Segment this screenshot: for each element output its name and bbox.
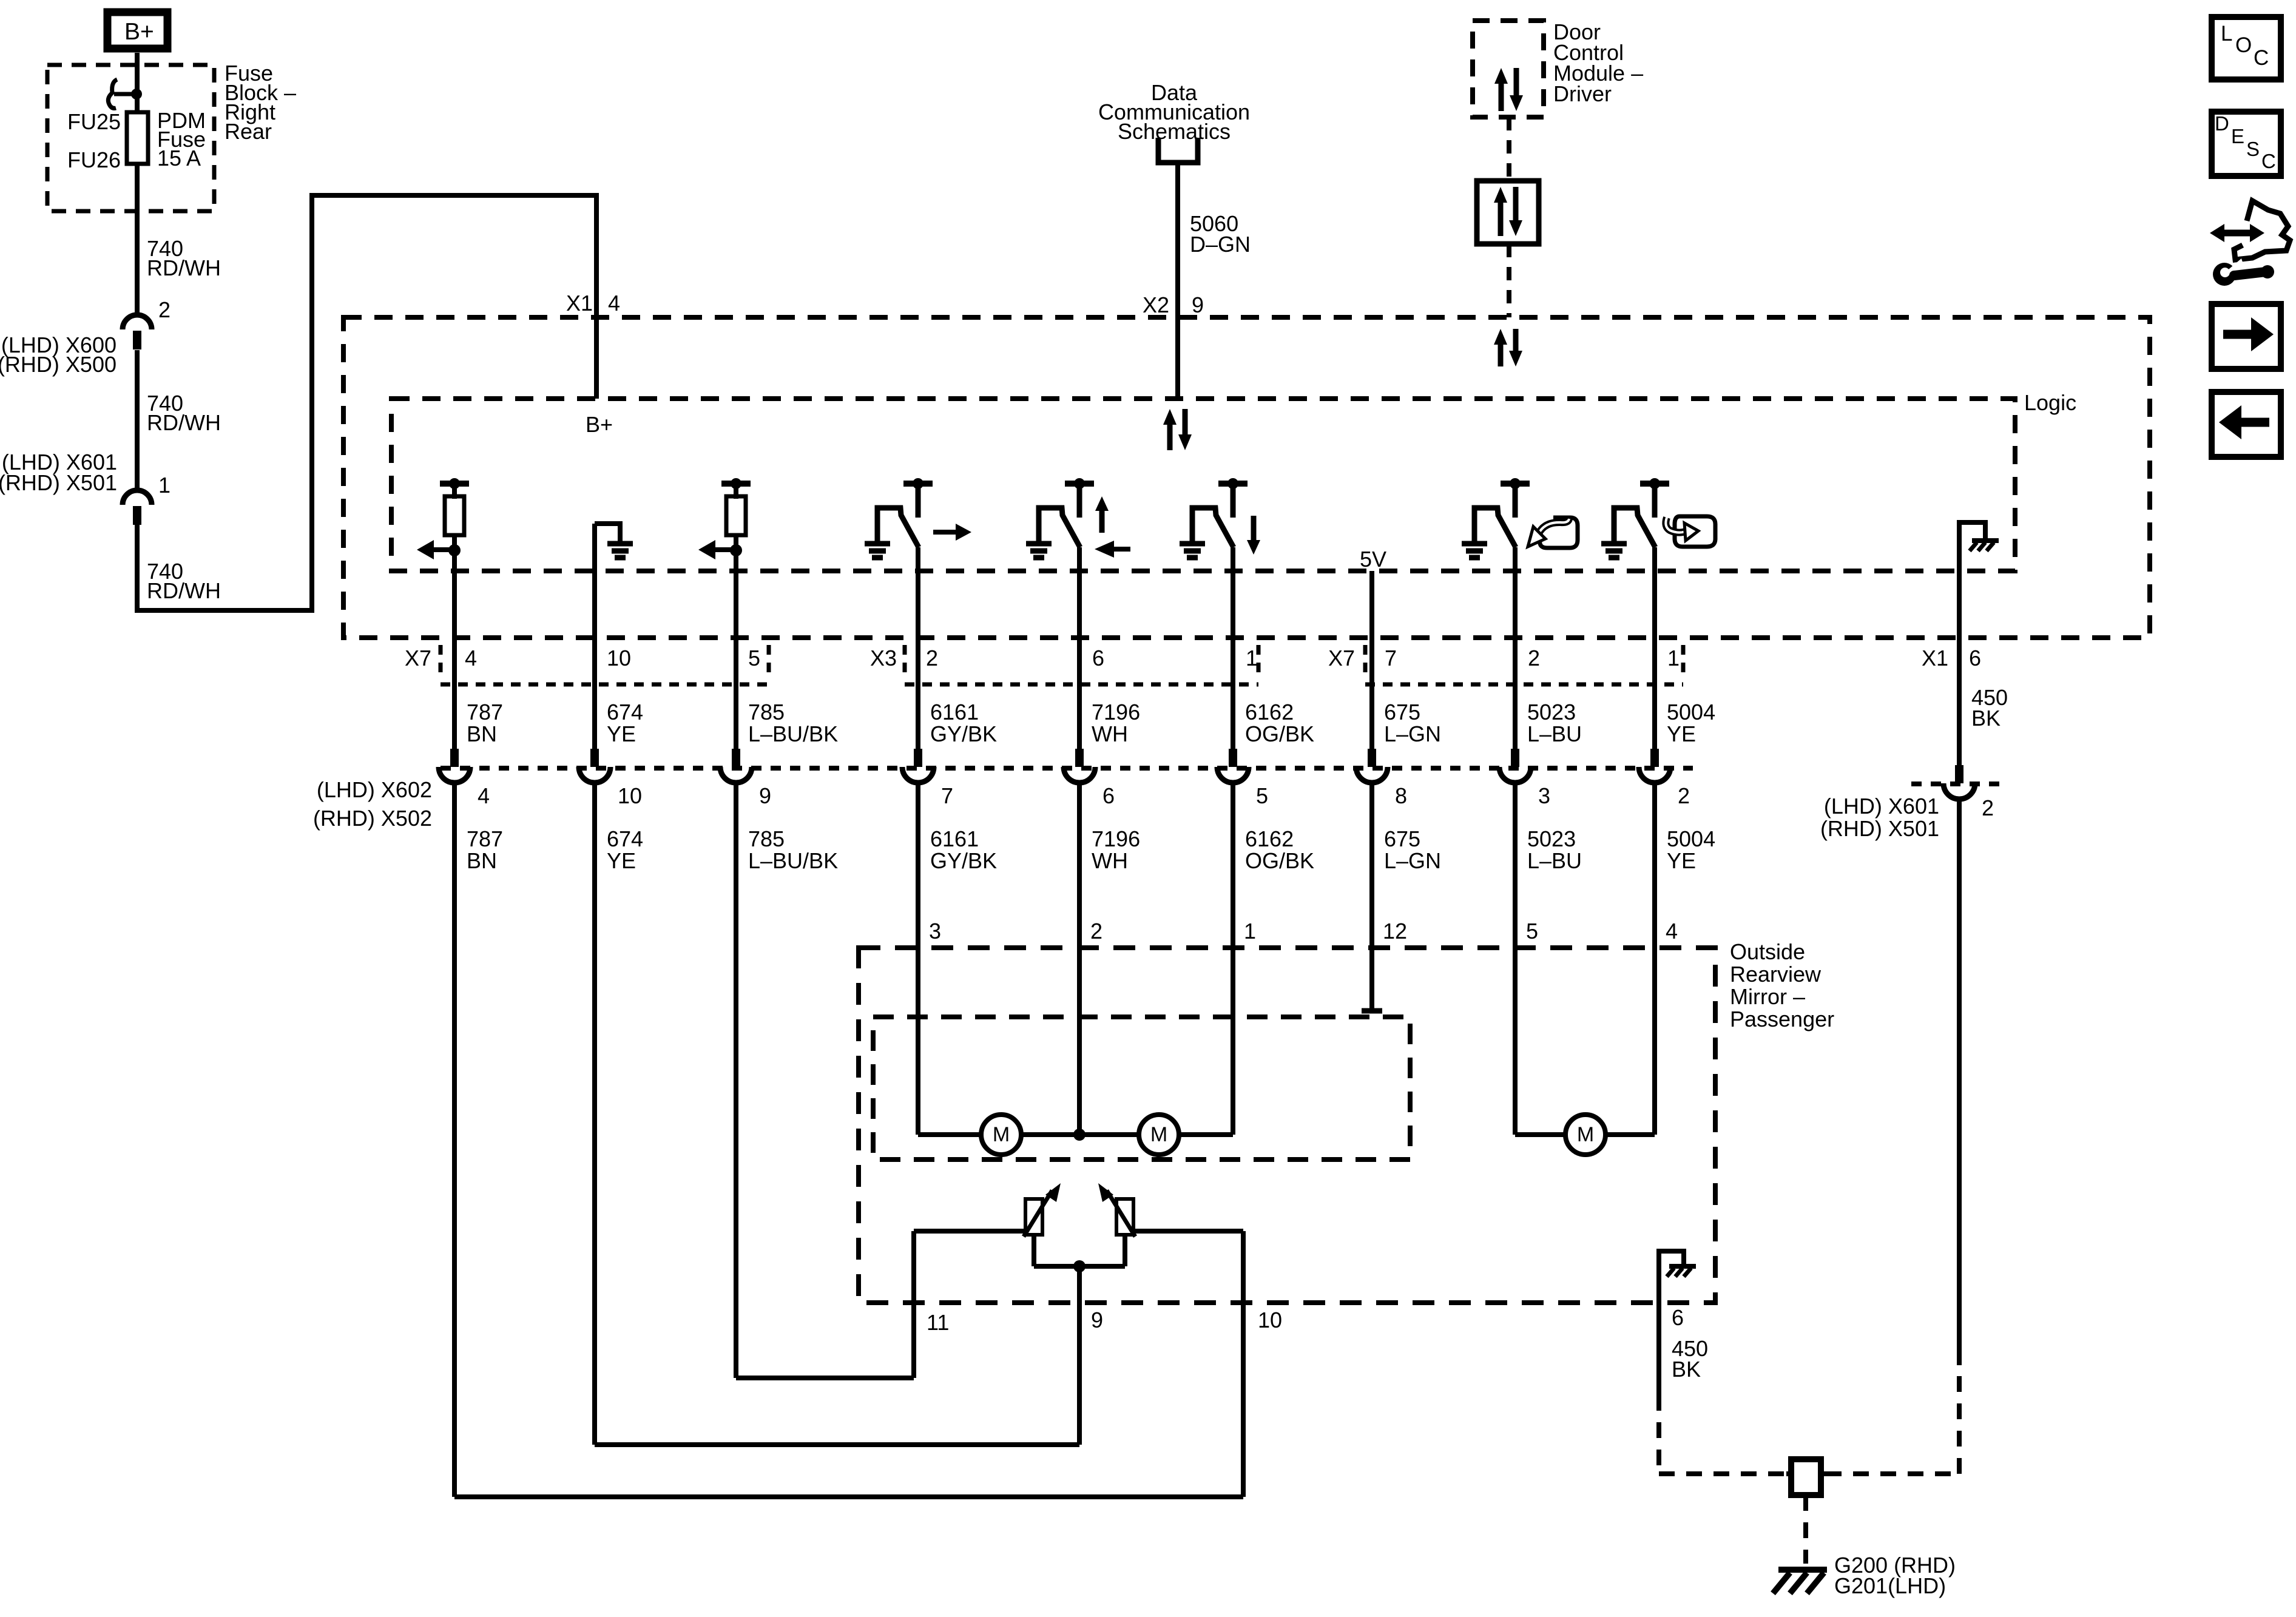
label 7196 WH (lower)	[1092, 826, 1140, 873]
pin 1b	[1667, 646, 1680, 670]
wire 5060 D-GN	[1175, 163, 1180, 399]
mirror pin 10	[1258, 1308, 1282, 1332]
door module outer dashed box	[343, 317, 2150, 638]
dashed ground bus	[1659, 1365, 1959, 1474]
svg-text:D–GN: D–GN	[1190, 232, 1251, 257]
forward arrow icon box	[2212, 304, 2281, 369]
switch mirror up (7196)	[1026, 478, 1094, 558]
label 7196 WH (upper)	[1092, 700, 1140, 746]
svg-text:787: 787	[467, 826, 503, 851]
svg-text:GY/BK: GY/BK	[930, 721, 997, 746]
label 5004 YE (upper)	[1667, 700, 1715, 746]
connector X7b label	[1328, 646, 1355, 670]
svg-text:L: L	[2221, 22, 2232, 46]
pin label X1 4	[566, 291, 620, 316]
resistor driver (787)	[417, 478, 469, 571]
svg-text:RD/WH: RD/WH	[147, 578, 221, 603]
switch mirror unfold (5004)	[1601, 478, 1669, 558]
label 450 BK (mirror)	[1672, 1336, 1708, 1382]
connector X3 label	[870, 646, 897, 670]
wire 7196 WH	[1077, 547, 1082, 749]
connector X600/X500	[123, 315, 152, 349]
arrow down (mirror down cmd)	[1247, 516, 1260, 555]
svg-text:X3: X3	[870, 646, 897, 670]
svg-text:5: 5	[748, 646, 760, 670]
label 740 RD/WH (above X601)	[147, 391, 221, 435]
svg-text:674: 674	[607, 826, 643, 851]
svg-text:O: O	[2235, 33, 2252, 57]
X602 pin 7	[941, 783, 953, 808]
connector X602 terminal at 1779	[1064, 749, 1095, 783]
svg-text:Rearview: Rearview	[1730, 962, 1822, 987]
pin 2	[926, 646, 938, 670]
pin 6	[1092, 646, 1104, 670]
serial data arrows (5060)	[1163, 409, 1192, 450]
ground G200/G201	[1773, 1570, 1827, 1593]
mirror pin 6	[1672, 1305, 1684, 1330]
svg-text:6162: 6162	[1245, 826, 1294, 851]
resistor driver (785)	[698, 478, 751, 571]
mirror pin 2	[1090, 919, 1102, 944]
svg-text:WH: WH	[1092, 721, 1128, 746]
mirror pin 1	[1244, 919, 1256, 944]
connector X602 terminal at 2032	[1217, 749, 1249, 783]
horizontal sensor feed right (to pin 10 riser)	[1132, 1229, 1243, 1234]
position sensor right	[1098, 1183, 1135, 1237]
svg-text:6: 6	[1672, 1305, 1684, 1330]
svg-text:C: C	[2261, 150, 2276, 172]
mirror ground (pin 6)	[1659, 1251, 1696, 1303]
svg-text:4: 4	[608, 291, 620, 316]
dashed link DCM to repeater box	[1507, 117, 1511, 181]
wire 740 RD/WH segment 2	[135, 350, 140, 490]
svg-text:675: 675	[1384, 700, 1420, 724]
fuse block dashed box	[47, 65, 214, 211]
splice box	[1786, 1459, 1826, 1495]
svg-text:6161: 6161	[930, 700, 979, 724]
arrow up (mirror up cmd)	[1095, 496, 1109, 533]
svg-text:GY/BK: GY/BK	[930, 848, 997, 873]
connector X1 label	[1922, 646, 1948, 670]
wire 5023 to fold motor	[1513, 783, 1518, 1135]
label 785 L-BU/BK (lower)	[748, 826, 838, 873]
svg-text:OG/BK: OG/BK	[1245, 848, 1314, 873]
routing 787 to pin 10	[454, 1494, 1243, 1499]
svg-text:10: 10	[618, 783, 642, 808]
label G200 (RHD)	[1834, 1553, 1956, 1578]
svg-text:5023: 5023	[1527, 700, 1576, 724]
svg-text:E: E	[2231, 125, 2244, 147]
switch mirror right (6161)	[865, 478, 933, 558]
svg-text:YE: YE	[607, 721, 636, 746]
mirror pin 12	[1383, 919, 1407, 944]
svg-text:FU25: FU25	[67, 109, 121, 134]
svg-text:10: 10	[607, 646, 631, 670]
label Logic	[2024, 390, 2076, 415]
label 5004 YE (lower)	[1667, 826, 1715, 873]
svg-text:Mirror –: Mirror –	[1730, 984, 1805, 1009]
svg-text:1: 1	[1244, 919, 1256, 944]
label 785 L-BU/BK (upper)	[748, 700, 838, 746]
fuse FU25/FU26 PDM 15A	[127, 112, 148, 164]
label 675 L-GN (upper)	[1384, 700, 1441, 746]
horizontal sensor feed left (to pin 11 riser)	[914, 1229, 1027, 1234]
motor M (fold)	[1565, 1115, 1606, 1155]
label PDM Fuse 15 A	[157, 108, 206, 170]
wire 5004 from fold motor	[1652, 783, 1657, 1135]
wire 675 L-GN	[1369, 571, 1374, 749]
svg-text:Rear: Rear	[225, 119, 272, 144]
wire 450 BK (right)	[1957, 571, 1962, 765]
back arrow icon box	[2212, 392, 2281, 457]
svg-text:2: 2	[158, 297, 171, 322]
pin 11 riser	[911, 1231, 916, 1378]
svg-text:4: 4	[478, 783, 490, 808]
serial data arrows (DCM)	[1494, 329, 1522, 366]
svg-text:10: 10	[1258, 1308, 1282, 1332]
dashed link repeater to DCM passenger	[1507, 244, 1511, 317]
label 740 RD/WH (below X601)	[147, 559, 221, 603]
sensor common to pin 9	[1077, 1266, 1082, 1445]
svg-text:4: 4	[465, 646, 477, 670]
svg-text:7: 7	[1385, 646, 1397, 670]
wire 787 BN lower	[452, 783, 457, 1497]
svg-text:9: 9	[759, 783, 771, 808]
svg-text:9: 9	[1091, 1308, 1103, 1332]
svg-text:Passenger: Passenger	[1730, 1007, 1834, 1031]
svg-text:BK: BK	[1672, 1357, 1701, 1382]
svg-text:2: 2	[1982, 795, 1994, 820]
arrows in DCM driver box	[1494, 68, 1523, 111]
B+ power symbol box	[107, 12, 167, 49]
wire 5004 YE	[1652, 547, 1657, 749]
label 6161 GY/BK (upper)	[930, 700, 997, 746]
label Outside Rearview Mirror - Passenger	[1730, 939, 1834, 1031]
svg-text:Logic: Logic	[2024, 390, 2076, 415]
svg-text:S: S	[2246, 138, 2260, 160]
serial data repeater box	[1477, 181, 1539, 244]
label 5023 L-BU (upper)	[1527, 700, 1582, 746]
sensor common junction	[1034, 1235, 1125, 1272]
mirror pin 11	[927, 1310, 949, 1335]
label 787 BN (upper)	[467, 700, 503, 746]
switch mirror fold (5023)	[1462, 478, 1530, 558]
X602 pin 6	[1102, 783, 1115, 808]
svg-text:G201(LHD): G201(LHD)	[1834, 1573, 1946, 1598]
svg-text:11: 11	[927, 1310, 949, 1335]
X7b separator	[1363, 645, 1368, 680]
svg-text:FU26: FU26	[67, 147, 121, 172]
dotted harness line X601 right	[1911, 781, 2008, 786]
wire 785 L-BU/BK	[734, 571, 738, 749]
svg-text:RD/WH: RD/WH	[147, 410, 221, 435]
svg-text:1: 1	[158, 473, 171, 498]
horizontal bus fold motor	[1515, 1132, 1655, 1137]
label 6162 OG/BK (upper)	[1245, 700, 1314, 746]
mirror pin 9	[1091, 1308, 1103, 1332]
svg-text:M: M	[993, 1123, 1010, 1146]
connector X602 terminal at 1513	[902, 749, 934, 783]
label 674 YE (upper)	[607, 700, 643, 746]
svg-text:7196: 7196	[1092, 700, 1140, 724]
clip symbol at fuse input	[108, 79, 142, 108]
label 740 RD/WH (above X600)	[147, 236, 221, 280]
svg-text:(RHD) X502: (RHD) X502	[313, 806, 432, 831]
svg-text:X1: X1	[1922, 646, 1948, 670]
connector X602 terminal at 2497	[1499, 749, 1531, 783]
svg-text:YE: YE	[1667, 848, 1696, 873]
ground (674)	[595, 524, 633, 749]
mirror inner dashed box	[873, 1017, 1410, 1160]
svg-text:2: 2	[926, 646, 938, 670]
svg-text:L–GN: L–GN	[1384, 848, 1441, 873]
X7 group box bottom	[441, 645, 769, 684]
X3 separator	[903, 645, 907, 680]
off-page bracket	[1158, 138, 1198, 163]
mirror fold-left icon	[1528, 518, 1578, 548]
routing 785 to pin 11	[736, 1376, 914, 1380]
X3 group box bottom	[905, 645, 1258, 684]
svg-text:C: C	[2254, 46, 2269, 70]
svg-text:RD/WH: RD/WH	[147, 255, 221, 280]
label B+ (logic)	[586, 412, 613, 437]
connector X602 terminal at 1213	[720, 749, 752, 783]
label 674 YE (lower)	[607, 826, 643, 873]
pin 2 of X600	[158, 297, 171, 322]
connector X602 terminal at 2261	[1356, 749, 1388, 783]
label 6161 GY/BK (lower)	[930, 826, 997, 873]
pin 5	[748, 646, 760, 670]
svg-text:L–BU: L–BU	[1527, 721, 1582, 746]
svg-text:3: 3	[1538, 783, 1550, 808]
switch mirror down (6162)	[1180, 478, 1248, 558]
mirror pin 5	[1526, 919, 1538, 944]
label FU26	[67, 147, 121, 172]
X7b group box bottom	[1365, 645, 1683, 684]
connector X602 terminal at 980	[579, 749, 610, 783]
svg-text:9: 9	[1192, 292, 1204, 317]
svg-text:6: 6	[1969, 646, 1981, 670]
wire 674 YE lower	[592, 783, 597, 1445]
label Door Control Module - Driver	[1553, 19, 1643, 106]
wire 6162 to motor	[1231, 783, 1235, 1135]
svg-text:M: M	[1577, 1123, 1594, 1146]
wire 6162 OG/BK	[1231, 547, 1235, 749]
svg-text:5: 5	[1526, 919, 1538, 944]
svg-text:M: M	[1150, 1123, 1167, 1146]
connector X601/X501 (right)	[1943, 765, 1975, 799]
svg-text:Driver: Driver	[1553, 81, 1612, 106]
label G201(LHD)	[1834, 1573, 1946, 1598]
svg-text:YE: YE	[1667, 721, 1696, 746]
wire 5023 L-BU	[1513, 547, 1518, 749]
position sensor left	[1024, 1183, 1061, 1237]
routing 674 to pin 9	[595, 1442, 1079, 1447]
label FU25	[67, 109, 121, 134]
svg-text:OG/BK: OG/BK	[1245, 721, 1314, 746]
wire 7196 to motor junction	[1073, 783, 1086, 1141]
svg-text:6: 6	[1102, 783, 1115, 808]
dashed splice to ground	[1803, 1495, 1808, 1564]
X602 pin 9	[759, 783, 771, 808]
logic dashed box	[391, 399, 2015, 571]
label 675 L-GN (lower)	[1384, 826, 1441, 873]
svg-text:8: 8	[1395, 783, 1407, 808]
svg-text:X7: X7	[1328, 646, 1355, 670]
svg-text:2: 2	[1678, 783, 1690, 808]
wire 740 RD/WH routed to DCM X1-4	[137, 195, 596, 610]
svg-text:(RHD) X501: (RHD) X501	[0, 470, 117, 495]
mirror fold-right icon	[1666, 516, 1715, 547]
svg-text:(RHD) X501: (RHD) X501	[1820, 816, 1939, 841]
label 450 BK (upper right)	[1971, 685, 2008, 731]
svg-text:785: 785	[748, 826, 785, 851]
svg-text:(RHD) X500: (RHD) X500	[0, 352, 116, 377]
mirror pin 3	[929, 919, 941, 944]
label Data Communication Schematics	[1098, 80, 1250, 144]
label (LHD) X601 / (RHD) X501	[0, 450, 117, 495]
svg-text:674: 674	[607, 700, 643, 724]
connector X602 terminal at 749	[439, 749, 470, 783]
label (LHD) X602 / (RHD) X502	[313, 777, 432, 831]
X602 pin 3	[1538, 783, 1550, 808]
pin 6 (X1)	[1969, 646, 1981, 670]
svg-text:6161: 6161	[930, 826, 979, 851]
motor M (up/down)	[1139, 1115, 1179, 1155]
pin 2b	[1528, 646, 1540, 670]
svg-text:5004: 5004	[1667, 700, 1715, 724]
pin 10	[607, 646, 631, 670]
label (LHD) X601 / (RHD) X501 (right)	[1820, 794, 1939, 841]
svg-text:15 A: 15 A	[157, 146, 201, 170]
wire 6161 GY/BK	[916, 547, 920, 749]
pin 1	[1246, 646, 1258, 670]
svg-text:3: 3	[929, 919, 941, 944]
label 5023 L-BU (lower)	[1527, 826, 1582, 873]
label 6162 OG/BK (lower)	[1245, 826, 1314, 873]
X602 pin 8	[1395, 783, 1407, 808]
X602 pin 10	[618, 783, 642, 808]
label 5V	[1360, 547, 1386, 572]
svg-text:7: 7	[941, 783, 953, 808]
connector X602 terminal at 2727	[1639, 749, 1670, 783]
svg-text:785: 785	[748, 700, 785, 724]
svg-text:2: 2	[1528, 646, 1540, 670]
X601 pin 2	[1982, 795, 1994, 820]
svg-text:1: 1	[1667, 646, 1680, 670]
wire 785 L-BU/BK lower	[734, 783, 738, 1378]
Door Control Module - Driver dashed box	[1473, 21, 1544, 117]
svg-text:2: 2	[1090, 919, 1102, 944]
svg-text:Outside: Outside	[1730, 939, 1805, 964]
svg-text:D: D	[2215, 112, 2229, 135]
wire B+ to fuse	[135, 53, 140, 315]
X602 pin 2	[1678, 783, 1690, 808]
mirror pin 4	[1666, 919, 1678, 944]
svg-text:(LHD) X602: (LHD) X602	[317, 777, 432, 802]
svg-text:5004: 5004	[1667, 826, 1715, 851]
X602 pin 4	[478, 783, 490, 808]
svg-text:Schematics: Schematics	[1118, 119, 1231, 144]
svg-text:WH: WH	[1092, 848, 1128, 873]
svg-text:L–BU: L–BU	[1527, 848, 1582, 873]
svg-text:X1: X1	[566, 291, 593, 316]
arrows in repeater box	[1494, 187, 1522, 236]
dotted harness line X602	[441, 766, 1693, 771]
LOC icon box	[2212, 17, 2281, 79]
svg-text:X7: X7	[405, 646, 431, 670]
Outside Rearview Mirror - Passenger dashed box	[859, 948, 1715, 1303]
wire 787 BN	[452, 571, 457, 749]
pin 4	[465, 646, 477, 670]
connector X601/X501 (left)	[123, 490, 152, 525]
pin 10 riser	[1241, 1231, 1246, 1497]
wire 450 BK right lower	[1957, 799, 1962, 1365]
label (LHD) X600 / (RHD) X500	[0, 333, 116, 377]
svg-text:1: 1	[1246, 646, 1258, 670]
label 5060 D-GN	[1190, 211, 1251, 257]
wire 675 to sensor common	[1362, 783, 1382, 1011]
pin 1 of X601	[158, 473, 171, 498]
svg-text:L–BU/BK: L–BU/BK	[748, 848, 838, 873]
svg-text:6162: 6162	[1245, 700, 1294, 724]
svg-text:675: 675	[1384, 826, 1420, 851]
svg-text:6: 6	[1092, 646, 1104, 670]
logic ground (450)	[1959, 522, 1999, 571]
arrow left (mirror up cmd)	[1095, 541, 1130, 558]
arrow right (mirror right cmd)	[933, 524, 971, 541]
label Fuse Block - Right Rear	[225, 61, 296, 144]
svg-text:B+: B+	[586, 412, 613, 437]
pin 7	[1385, 646, 1397, 670]
wire 6161 to motor	[916, 783, 920, 1135]
svg-text:7196: 7196	[1092, 826, 1140, 851]
svg-text:12: 12	[1383, 919, 1407, 944]
svg-text:YE: YE	[607, 848, 636, 873]
svg-text:(LHD) X601: (LHD) X601	[1824, 794, 1939, 819]
svg-text:B+: B+	[124, 19, 154, 45]
horizontal motor bus M1-M2	[918, 1132, 1233, 1137]
svg-text:5023: 5023	[1527, 826, 1576, 851]
svg-text:4: 4	[1666, 919, 1678, 944]
svg-text:BK: BK	[1971, 706, 2001, 731]
DESC icon box	[2212, 112, 2281, 176]
svg-text:L–BU/BK: L–BU/BK	[748, 721, 838, 746]
X602 pin 5	[1256, 783, 1268, 808]
svg-text:5V: 5V	[1360, 547, 1386, 572]
repair icon (hand and wrench)	[2210, 201, 2290, 286]
connector X7 label	[405, 646, 431, 670]
X7 separator	[439, 645, 443, 680]
pin label X2 9	[1143, 292, 1204, 317]
svg-text:BN: BN	[467, 848, 497, 873]
wire pin6 to splice	[1656, 1303, 1661, 1474]
svg-text:L–GN: L–GN	[1384, 721, 1441, 746]
svg-text:BN: BN	[467, 721, 497, 746]
motor M (left/right)	[981, 1115, 1021, 1155]
svg-text:5: 5	[1256, 783, 1268, 808]
svg-text:787: 787	[467, 700, 503, 724]
label 787 BN (lower)	[467, 826, 503, 873]
svg-text:X2: X2	[1143, 292, 1169, 317]
